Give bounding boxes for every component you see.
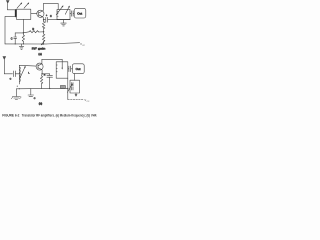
capacitor Cc (a) [71,11,73,16]
input tank box T1 [17,9,31,19]
trimmer box (b) [70,80,80,93]
junction mark above rail [17,86,18,87]
slug tuning arrow T3 [61,59,63,69]
caption [2,113,97,117]
collector riser wire [42,4,45,12]
svg-text:C: C [11,38,13,41]
svg-text:FIGURE 6-2: FIGURE 6-2 [2,113,19,117]
out box (a) [74,8,86,18]
wire L1 top to base (b) [19,64,36,67]
tuning arrow T2 [56,5,63,14]
input arrow (b) [3,56,7,74]
transistor Q2 [36,63,43,70]
wire out box to trimmer [74,74,76,81]
svg-text:Out: Out [76,67,81,71]
svg-text:CC: CC [87,101,90,103]
inductor L1 (b) [19,65,20,84]
wire Cc to out box [73,12,74,14]
svg-text:+: + [46,14,48,17]
wire T1 to base [31,12,37,14]
bottom rail (b) [16,87,67,90]
capacitor Cc (b) [69,66,73,72]
node L1 input junction [19,73,20,74]
trimmer capacitor plates [71,83,73,90]
svg-text:Transistor RF amplifiers. (a): Transistor RF amplifiers. (a) Medium-fre… [22,113,97,117]
top rail (b) [42,58,62,60]
top rail (a) [43,3,58,5]
ground under rail (a) [19,44,24,49]
input transformer T1 primary coil [15,10,17,16]
wire rail drop to T2 [57,4,59,10]
output tank box T2 [57,9,70,19]
wire bias node to CB [15,32,23,34]
bottom rail (a) [5,43,46,45]
node CB rail junction [15,43,16,44]
trimmer arrow [67,83,72,92]
supply label (b) [84,98,90,103]
svg-text:R: R [32,28,34,31]
resistor R1 vertical [22,33,24,44]
dashed supply line (b) [68,99,84,101]
wire T1 bottom to bias node [22,19,24,32]
coil ticks T3 [56,65,57,72]
emitter wire (b) [41,70,43,74]
wire T2 bottom to ground [63,20,65,23]
capacitor CB [14,33,17,44]
supply label (a) [80,42,86,47]
wire emitter to CE (b) [42,73,50,75]
resistor RE (b) [40,74,42,89]
wire T2 to coupling cap [70,12,71,14]
tuning arrow 2 [24,2,29,8]
svg-text:R: R [44,75,46,77]
output tank box T3 (b) [56,62,68,78]
node bias junction [23,32,24,33]
node emitter junction [43,19,44,20]
ground left (b) [11,89,21,100]
node emitter junction (b) [41,73,42,74]
capacitor CE [46,17,48,22]
down arrow under trimmer (b) [75,93,78,97]
capacitor CE (b) [47,74,53,89]
wire antenna to input transformer [8,9,16,11]
ground (a) output [61,23,67,26]
svg-text:L: L [28,73,30,75]
node R1 rail junction [23,43,24,44]
tuning arrow L1 [20,66,26,78]
potentiometer RF gain [41,34,45,45]
wire primary return [5,16,16,44]
svg-text:C: C [50,15,52,18]
wire CE to ground rail [48,19,57,21]
tuning arrow T2b [65,6,70,15]
wire emitter to bypass cap [44,19,46,21]
tuning arrow 1 [17,2,22,8]
wire T3 to coupling cap (b) [67,68,70,70]
svg-text:(a): (a) [38,52,41,56]
node rail right junction (b) [67,88,68,89]
collector riser (b) [41,59,43,64]
capacitor C1 (b) [13,71,19,77]
wire rail to supply (b) [67,88,69,99]
wire input (b) [4,73,12,75]
svg-text:CC: CC [82,45,85,47]
node rail junctions (b) [19,88,20,89]
supply rail (a) right [46,43,80,44]
svg-text:C: C [10,78,12,80]
node emitter column junction [43,31,44,32]
out box (b) [72,64,84,74]
wire T3 bottom to rail [67,78,69,88]
node rail junction (a) [43,43,44,44]
resistor R2 horizontal [23,31,43,33]
resistor RE (a) [42,20,45,34]
svg-text:RF gain: RF gain [32,46,46,50]
svg-text:C: C [34,98,36,100]
transistor Q1 [37,10,44,17]
svg-text:Out: Out [77,11,82,15]
capacitor C2 on rail (b) [28,89,34,97]
antenna [6,0,10,10]
emitter wire [43,17,44,20]
feedthrough component on rail [60,86,65,89]
coil ticks T2 [57,11,58,16]
svg-text:(b): (b) [39,102,42,106]
